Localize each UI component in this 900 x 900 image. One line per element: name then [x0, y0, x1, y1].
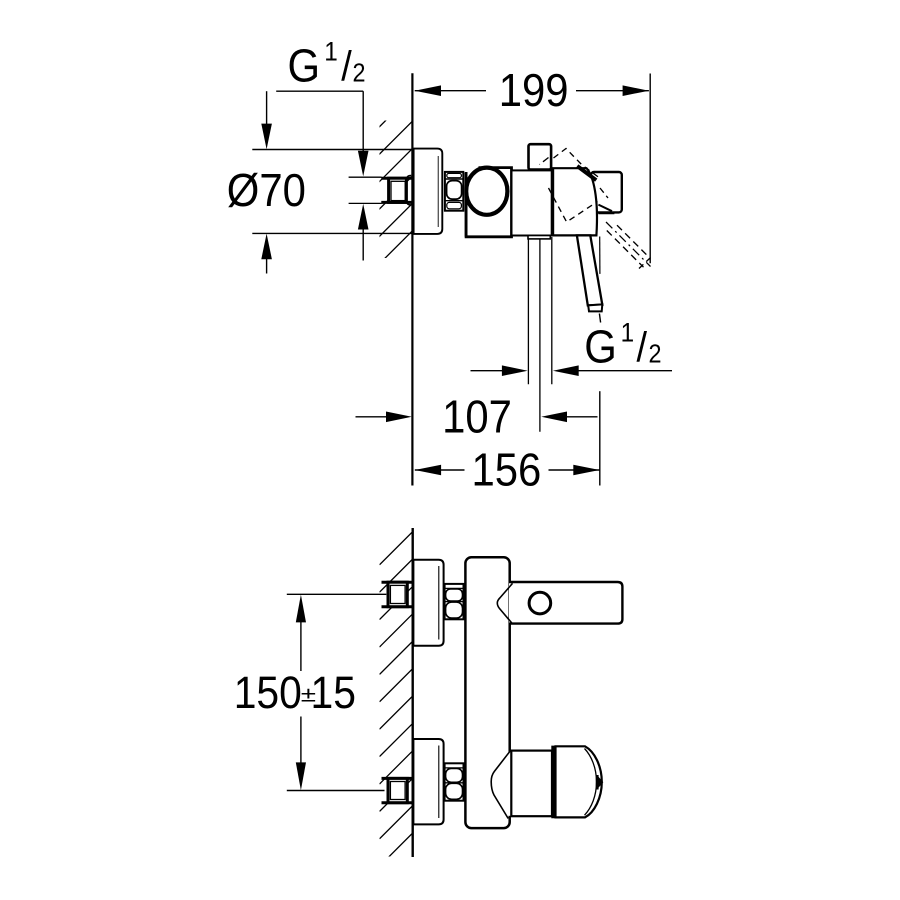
upper escutcheon	[413, 560, 443, 646]
svg-text:199: 199	[499, 65, 569, 117]
spout tip wedge	[598, 205, 612, 212]
lower supply pipe	[382, 778, 412, 802]
svg-text:/: /	[341, 44, 352, 90]
divider	[551, 168, 554, 236]
svg-text:Ø70: Ø70	[227, 165, 306, 217]
lower union square	[388, 778, 407, 802]
supply pipe through wall	[381, 178, 411, 202]
label G 1/2 bottom	[584, 322, 617, 374]
wall hatch top	[377, 94, 412, 293]
svg-text:2: 2	[648, 341, 661, 369]
body section 2	[512, 170, 552, 235]
lever base edge	[577, 166, 596, 180]
bottom step of body	[528, 236, 550, 239]
dimension 107	[356, 416, 598, 418]
dimension 156	[415, 391, 600, 485]
lower hex nut	[445, 763, 464, 800]
lower escutcheon	[413, 739, 443, 824]
union square	[389, 178, 407, 202]
upper supply pipe	[382, 582, 412, 607]
svg-text:G: G	[288, 41, 321, 93]
wall line top	[411, 73, 413, 485]
front block with curved face	[553, 168, 597, 235]
svg-text:/: /	[637, 325, 648, 371]
label G 1/2 top	[288, 41, 321, 93]
handle lever (solid, closed position)	[577, 235, 602, 305]
svg-text:150: 150	[234, 668, 302, 718]
upper hex nut	[445, 584, 464, 619]
shower outlet	[511, 751, 552, 817]
svg-text:156: 156	[471, 444, 541, 496]
svg-text:G: G	[584, 322, 617, 374]
dimension 150 +/- 15	[287, 594, 387, 790]
hex nut (side)	[445, 172, 463, 211]
svg-text:2: 2	[352, 59, 365, 87]
dashed handle (open position)	[540, 149, 654, 269]
dimension G1/2 bottom (horizontal)	[471, 370, 673, 372]
svg-text:15: 15	[311, 668, 356, 718]
wall line bottom	[412, 528, 414, 857]
dimension 199	[415, 74, 651, 264]
dimension G1/2 thread (vertical)	[362, 91, 364, 260]
escutcheon (side)	[414, 149, 443, 234]
G1/2 square extension lines	[349, 177, 382, 203]
svg-text:1: 1	[621, 318, 635, 347]
diverter knob circle	[529, 592, 551, 614]
bath spout	[509, 582, 622, 624]
outlet block	[591, 172, 622, 212]
mixer body front	[465, 557, 509, 828]
diverter knob	[529, 144, 552, 169]
wall hatch bottom	[380, 532, 413, 894]
outlet pipes down	[527, 239, 529, 384]
upper union square	[388, 582, 407, 607]
svg-text:1: 1	[324, 38, 338, 67]
body section 1	[466, 168, 511, 237]
svg-text:107: 107	[442, 391, 512, 443]
dimension O70 (vertical)	[252, 91, 413, 273]
